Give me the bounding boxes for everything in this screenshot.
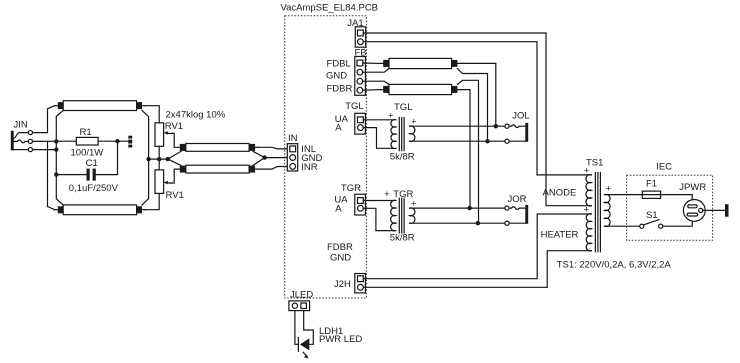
svg-text:0,1uF/250V: 0,1uF/250V xyxy=(69,183,119,194)
wire top cable right shield to loop xyxy=(142,111,149,160)
svg-text:HEATER: HEATER xyxy=(541,229,579,240)
connector JA1 xyxy=(347,18,365,47)
wire J2H pin2 to heater bottom xyxy=(363,251,591,288)
wire shield fan to cable R xyxy=(168,159,181,165)
wire RV1 lower wiper to cable xyxy=(171,169,180,183)
wire mid cable L to INL xyxy=(258,147,287,149)
wire FB pin3 to FDBR shield xyxy=(363,81,389,84)
svg-text:5k/8R: 5k/8R xyxy=(390,232,415,243)
node JOR tip junction xyxy=(467,206,471,210)
svg-text:S1: S1 xyxy=(646,210,658,221)
wire F1 to JPWR top xyxy=(661,195,693,200)
wire S1 to JPWR bottom xyxy=(663,221,692,226)
svg-text:PWR LED: PWR LED xyxy=(319,334,362,345)
switch S1 xyxy=(640,210,663,228)
node C1 junction xyxy=(54,172,58,176)
svg-text:A: A xyxy=(335,204,342,215)
wire TGL pin1 to primary top xyxy=(363,119,394,121)
wire FB pin4 to cable FDBR xyxy=(363,89,380,92)
wire ring row down to bottom cable xyxy=(48,141,55,209)
svg-text:5k/8R: 5k/8R xyxy=(390,152,415,163)
wire top cable right to RV1 xyxy=(145,106,159,123)
wire JIN tip to top cable xyxy=(33,106,55,133)
wire ground row xyxy=(149,158,168,160)
connector IN xyxy=(287,133,322,173)
transformer TGL xyxy=(388,102,417,162)
wire mid cable R to INR xyxy=(258,167,287,170)
svg-text:FDBR: FDBR xyxy=(327,84,353,95)
PCB outline VacAmpSE_EL84.PCB xyxy=(281,3,379,299)
wire TGL sec bottom to JOL xyxy=(410,140,505,142)
svg-text:TGL: TGL xyxy=(394,102,412,113)
shielded cable mid L xyxy=(180,144,259,152)
svg-text:GND: GND xyxy=(326,71,347,82)
wire RV1 upper wiper to cable xyxy=(171,133,180,147)
svg-text:GND: GND xyxy=(330,252,351,263)
connector J2H xyxy=(334,274,365,293)
svg-text:FDBL: FDBL xyxy=(327,58,351,69)
mains terminal xyxy=(725,204,729,217)
svg-text:TGR: TGR xyxy=(341,183,361,194)
wire JA1 pin1 to TS1 anode bottom xyxy=(363,33,591,206)
jack JIN xyxy=(11,120,33,152)
svg-text:2x47klog 10%: 2x47klog 10% xyxy=(166,109,226,120)
node pots ground xyxy=(157,157,161,161)
node loop ground xyxy=(146,157,150,161)
svg-text:+: + xyxy=(384,189,390,200)
wire JLED pin2 to LED anode xyxy=(304,311,314,345)
wire FB pin2 to FDBL shield xyxy=(363,69,389,73)
svg-text:RV1: RV1 xyxy=(166,190,184,201)
shielded cable mid R xyxy=(180,165,259,173)
svg-text:F1: F1 xyxy=(646,179,657,190)
node mid shields junction xyxy=(262,155,266,159)
wire TGR sec top to JOR xyxy=(410,207,505,209)
svg-text:TGL: TGL xyxy=(345,101,363,112)
svg-text:JIN: JIN xyxy=(14,120,28,131)
LED LDH1 xyxy=(298,326,362,359)
wire RV1 chain middle xyxy=(158,146,160,170)
shielded cable FDBR xyxy=(380,84,461,94)
connector FB xyxy=(326,48,367,96)
wire TGL sec top to JOL xyxy=(410,125,505,127)
connector JLED xyxy=(289,289,313,310)
svg-text:+: + xyxy=(606,184,612,195)
svg-text:JLED: JLED xyxy=(290,289,313,300)
wire JIN sleeve to ground bus xyxy=(33,149,57,151)
wire FB pin1 to cable FDBL xyxy=(363,62,380,64)
transformer TGR xyxy=(384,189,417,243)
chassis terminal xyxy=(128,136,132,148)
wire FDBL shield to JOL sleeve xyxy=(457,69,487,142)
jack JOR xyxy=(505,194,528,225)
svg-text:R1: R1 xyxy=(80,127,92,138)
connector TGL header xyxy=(335,101,366,134)
shielded cable top-left xyxy=(55,101,146,111)
svg-text:TS1: 220V/0,2A, 6,3V/2,2A: TS1: 220V/0,2A, 6,3V/2,2A xyxy=(557,259,672,270)
shielded cable bottom-left xyxy=(55,205,146,215)
wire R1 right to chassis xyxy=(98,140,128,142)
wire mid shields to GND pin xyxy=(253,151,287,165)
wire JPWR to mains xyxy=(703,209,725,211)
svg-text:INR: INR xyxy=(301,162,318,173)
svg-text:JOR: JOR xyxy=(508,194,527,205)
potentiometer RV1 lower xyxy=(155,170,184,201)
wire TGR pin2 to primary bottom xyxy=(363,208,394,230)
svg-text:A: A xyxy=(335,123,342,134)
wire bottom cable right to RV1 xyxy=(145,193,159,209)
wire C1 left xyxy=(56,174,86,176)
wire JA1 pin2 to TS1 anode top xyxy=(363,42,591,175)
wire TGL pin2 to primary bottom xyxy=(363,128,394,149)
wire FDBR core to JOR tip xyxy=(461,90,470,209)
svg-text:VacAmpSE_EL84.PCB: VacAmpSE_EL84.PCB xyxy=(281,3,379,14)
capacitor C1 xyxy=(69,158,119,194)
jack JOL xyxy=(505,110,530,143)
node JOL sleeve junction xyxy=(485,139,489,143)
connector TGR header xyxy=(334,183,365,215)
svg-text:RV1: RV1 xyxy=(165,121,183,132)
wire J2H pin1 to heater top xyxy=(363,214,591,279)
node ring junction xyxy=(54,139,58,143)
IEC module outline xyxy=(627,161,713,240)
wire FDBL core to JOL tip xyxy=(461,63,496,126)
svg-text:C1: C1 xyxy=(86,158,98,169)
fuse F1 xyxy=(642,179,660,199)
wire JLED pin1 to LED cathode xyxy=(295,311,299,345)
svg-text:ANODE: ANODE xyxy=(543,187,577,198)
node shields ground xyxy=(166,157,170,161)
transformer TS1 xyxy=(541,158,612,252)
wire TGR pin1 to primary top xyxy=(363,200,394,202)
shielded cable FDBL xyxy=(380,58,461,68)
node JOR sleeve junction xyxy=(476,221,480,225)
node sleeve junction xyxy=(54,147,58,151)
resistor R1 xyxy=(71,127,104,158)
potentiometer RV1 upper xyxy=(155,109,226,146)
svg-text:JOL: JOL xyxy=(512,110,529,121)
svg-text:JPWR: JPWR xyxy=(679,182,706,193)
node JOL tip junction xyxy=(494,124,498,128)
wire TS1 primary bottom to S1 xyxy=(605,225,640,227)
svg-text:IN: IN xyxy=(288,133,298,144)
wire C1 right up to R1 junction xyxy=(96,141,118,174)
power inlet JPWR xyxy=(679,182,706,221)
wire JIN ring to R1 row xyxy=(33,140,77,142)
node R1/C1 junction xyxy=(115,139,119,143)
svg-text:100/1W: 100/1W xyxy=(71,147,104,158)
wire TS1 primary top to F1 xyxy=(605,194,643,196)
wire TGR sec bottom to JOR xyxy=(410,222,505,224)
svg-text:IEC: IEC xyxy=(656,161,672,172)
wire bottom cable right shield to loop xyxy=(142,159,149,205)
svg-text:J2H: J2H xyxy=(334,279,351,290)
wire ground bus vertical xyxy=(56,111,63,205)
wire FDBR shield to JOR sleeve xyxy=(457,80,478,223)
wire shield fan to cable L xyxy=(168,151,181,159)
